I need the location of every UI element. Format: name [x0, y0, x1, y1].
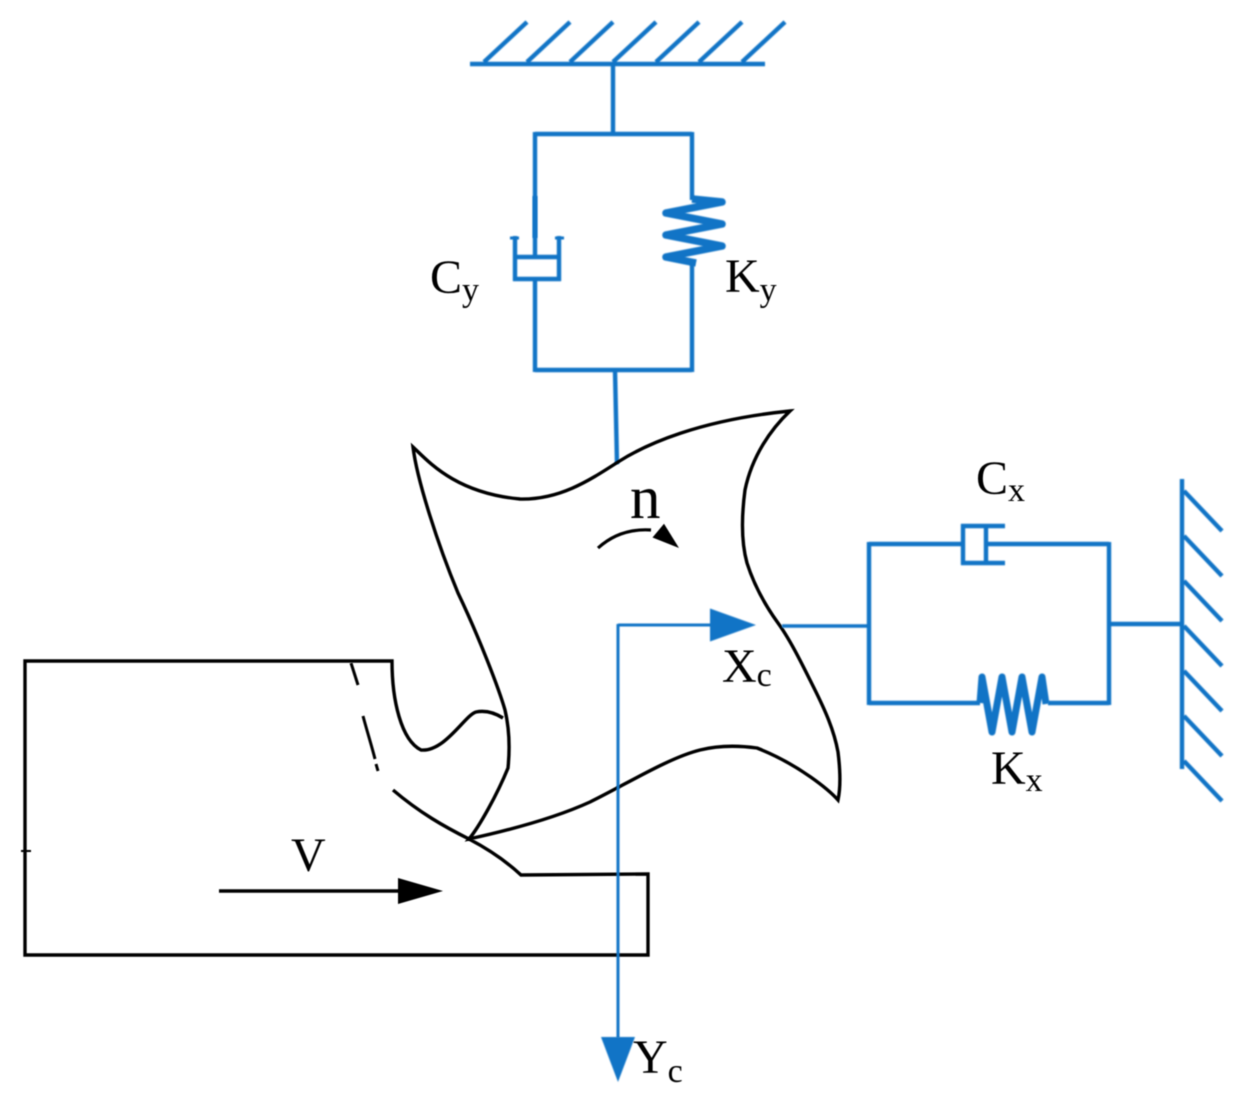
Cy/Ky parallel box frame [535, 132, 692, 372]
coordinate axes Xc / Yc [618, 624, 869, 1038]
damper Cx [961, 524, 1005, 565]
Xc arrowhead [710, 609, 756, 642]
svg-text:Ky: Ky [725, 250, 777, 309]
Cx/Kx parallel box frame [869, 542, 1182, 705]
rotation arrow [598, 530, 651, 548]
ceiling ground (top) [470, 22, 785, 64]
wall ground (right) [1182, 479, 1222, 801]
svg-text:V: V [291, 829, 326, 882]
tick on workpiece left edge [21, 850, 31, 852]
svg-text:Cy: Cy [430, 251, 479, 309]
svg-text:Yc: Yc [633, 1031, 683, 1090]
spring Ky [666, 199, 722, 263]
spring Kx [980, 677, 1046, 732]
dashed previous tooth path [351, 663, 358, 685]
milling cutter (4-tooth star) [413, 411, 840, 839]
svg-text:Xc: Xc [722, 640, 772, 694]
svg-text:Kx: Kx [991, 742, 1043, 799]
svg-text:n: n [630, 465, 661, 532]
damper Cy [510, 196, 564, 281]
wire box to cutter [615, 370, 617, 464]
workpiece outline [25, 661, 648, 955]
feed arrow [219, 889, 402, 893]
svg-text:Cx: Cx [976, 452, 1025, 509]
Yc arrowhead [601, 1037, 635, 1082]
wire ceiling to Cy/Ky box [611, 64, 615, 134]
